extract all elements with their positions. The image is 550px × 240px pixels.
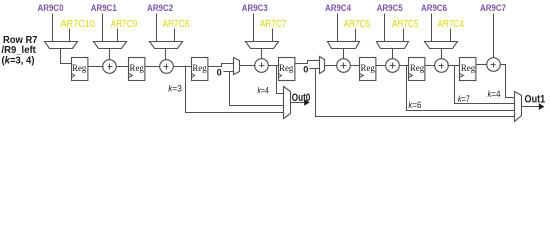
mux M2 [150,42,183,49]
register RegD [279,58,295,81]
mux Z2 [320,57,325,74]
wire AR7C5 to mux M5 [403,29,405,42]
wire Out1 output with arrow [522,103,545,110]
svg-text:AR9C5: AR9C5 [377,3,404,14]
wire k=6 tap to Out1 mux [407,66,515,111]
wire AR9C6 to mux M6 [431,14,433,42]
wire k=4 tap to Out0 mux upper input [277,66,284,94]
svg-text:AR7C7: AR7C7 [260,18,287,30]
svg-text:0: 0 [217,68,222,78]
net AR7C5 label [392,18,419,30]
row label Row R7 /R9_left (k=3,4) [2,35,39,66]
register RegE [360,58,376,81]
wire k=3 tap to Out0 mux lower input [186,66,284,113]
net AR9C0 label [38,3,64,14]
adder A7 [487,58,501,72]
svg-text:AR7C6: AR7C6 [344,18,371,30]
mux M6 [425,42,458,49]
wire adder A4 to RegE [351,65,360,67]
wire RegC to mux Z1 top input [208,64,234,67]
wire adder A3 to RegD [269,65,279,67]
net AR9C4 label [325,3,352,14]
wire RegD to mux Z2 top input [295,61,320,64]
wire adder A6 to RegG [448,65,460,67]
adder A5 [386,59,400,73]
wire mux M5 output to adder A5 [392,49,394,59]
mux Out1 [515,92,522,122]
wire Z1 zero node to Out0 mux middle input [230,72,284,106]
wire AR7C10 to mux M0 [69,29,71,42]
net AR9C5 label [377,3,404,14]
svg-text:k=6: k=6 [408,100,421,111]
wire mux M3 output to adder A3 [261,49,263,59]
net AR9C2 label [147,3,173,14]
wire mux Z1 to adder A3 [240,65,256,67]
svg-text:Reg: Reg [72,63,87,73]
wire AR9C1 to mux M1 [102,14,104,42]
wire AR9C4 to mux M4 [337,14,339,42]
net AR9C1 label [91,3,118,14]
wire AR9C0 to mux M0 [52,14,54,42]
wire 0 stub into mux Z2 [310,68,320,70]
wire k=7 tap to Out1 mux [455,66,515,104]
svg-text:(k=3, 4): (k=3, 4) [2,55,35,66]
svg-text:AR9C3: AR9C3 [242,3,268,14]
svg-text:Reg: Reg [410,63,425,73]
label k=6 [408,100,421,111]
net AR7C4 label [438,18,465,30]
wire RegA to adder A1 [88,66,104,68]
mux M5 [377,42,409,49]
wire AR7C6 to mux M4 [355,29,357,42]
svg-text:Reg: Reg [279,63,294,73]
svg-text:AR7C9: AR7C9 [111,18,138,30]
svg-text:AR7C4: AR7C4 [438,18,465,30]
constant 0 label for mux Z2 [303,64,308,74]
wire AR7C7 to mux M3 [272,29,274,42]
wire RegE to adder A5 [376,65,386,67]
net AR7C8 label [163,18,190,30]
wire AR9C2 to mux M2 [156,14,158,42]
wire mux M6 output to adder A6 [441,49,443,59]
wire RegB to adder A2 [145,66,160,68]
svg-text:0: 0 [303,64,308,74]
register RegC [192,58,208,81]
wire adder A5 to RegF [400,65,409,67]
label Out0 [292,92,311,104]
svg-text:Reg: Reg [192,63,207,73]
wire mux Z2 to adder A4 [325,65,337,67]
wire adder A2 to RegC [174,66,192,68]
net AR7C7 label [260,18,287,30]
wire AR9C7 to adder A7 [493,14,495,59]
wire AR7C8 to mux M2 [174,29,176,42]
register RegG [460,58,476,81]
net AR9C3 label [242,3,268,14]
net AR9C7 label [480,3,506,14]
svg-text:k=4: k=4 [257,85,269,96]
mux M1 [94,42,127,49]
svg-text:Reg: Reg [461,63,476,73]
svg-text:AR9C6: AR9C6 [421,3,447,14]
wire AR7C9 to mux M1 [117,29,119,42]
register RegF [409,58,425,81]
svg-text:AR9C2: AR9C2 [147,3,173,14]
svg-text:AR7C5: AR7C5 [392,18,419,30]
adder A2 [160,60,174,74]
wire mux M2 output to adder A2 [165,49,167,60]
svg-text:AR9C0: AR9C0 [38,3,64,14]
net AR7C9 label [111,18,138,30]
mux M3 [246,42,279,49]
svg-text:AR9C7: AR9C7 [480,3,506,14]
adder A1 [103,60,117,74]
wire AR7C4 to mux M6 [450,29,452,42]
mux Out0 [284,87,291,119]
adder A4 [337,59,351,73]
mux Z1 [234,58,240,75]
register RegB [129,58,145,81]
constant 0 label for mux Z1 [217,68,222,78]
svg-text:AR7C10: AR7C10 [60,18,95,30]
adder A3 [255,59,269,73]
net AR9C6 label [421,3,447,14]
label Out1 [525,93,546,105]
wire adder A1 to RegB [117,66,129,68]
wire adder A7 output to Out1 mux top input [500,65,515,98]
svg-text:Reg: Reg [361,63,376,73]
svg-text:Out1: Out1 [525,93,546,105]
svg-text:k=4: k=4 [488,89,502,100]
register RegA [72,58,88,81]
adder A6 [435,59,449,73]
svg-text:Reg: Reg [130,63,145,73]
svg-text:k=3: k=3 [168,83,182,94]
label k=3 [168,83,182,94]
wire mux M0 output to RegA [61,49,72,64]
wire mux M1 output to adder A1 [109,49,111,60]
wire AR9C5 to mux M5 [384,14,386,42]
mux M0 [45,42,78,49]
label k=7 [458,94,470,105]
wire mux M4 output to adder A4 [343,49,345,59]
svg-text:AR9C1: AR9C1 [91,3,118,14]
net AR7C10 label [60,18,95,30]
label k=4 (Out1) [488,89,502,100]
wire Out0 output with arrow [291,99,310,106]
label k=4 (Out0) [257,85,269,96]
net AR7C6 label [344,18,371,30]
wire 0 stub into mux Z1 [224,71,234,73]
svg-text:AR9C4: AR9C4 [325,3,352,14]
mux M4 [328,42,360,49]
wire RegF to adder A6 [426,65,435,67]
svg-text:AR7C8: AR7C8 [163,18,190,30]
wire AR9C3 to mux M3 [253,14,255,42]
wire Z2 zero node to Out1 mux lowest input [316,69,515,117]
wire RegG to adder A7 [477,64,487,66]
